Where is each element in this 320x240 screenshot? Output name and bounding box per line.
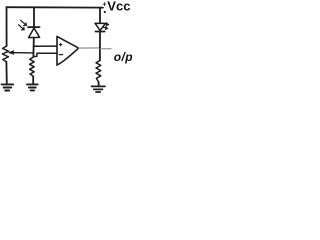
svg-text:o/p: o/p	[114, 50, 133, 64]
photodiode D1 triangle	[29, 28, 40, 38]
wire photodiode anode down to node A and resistor R2	[32, 38, 34, 57]
photodiode D1 cathode bar	[28, 26, 40, 28]
LED emission arrow 2	[103, 27, 108, 30]
wire top supply rail	[7, 6, 104, 8]
wire potentiometer bottom to ground	[5, 62, 7, 85]
svg-text:Vcc: Vcc	[107, 0, 130, 14]
wire output stub to o/p	[101, 48, 112, 50]
junction dot below +Vcc	[104, 11, 106, 13]
wire resistor R3 to ground	[98, 82, 100, 86]
wire wiper jog to op-amp non-inverting input	[33, 53, 57, 56]
LED D2 triangle	[95, 23, 106, 30]
ground symbol (right, under R3)	[92, 86, 106, 92]
op-amp plus input mark	[59, 43, 61, 45]
ground symbol (left, under potentiometer)	[2, 84, 14, 90]
wire photodiode branch from rail down	[33, 7, 35, 27]
photodiode light arrow 2	[19, 25, 25, 30]
wire left branch from rail down to potentiometer	[6, 7, 8, 46]
wire op-amp output	[79, 47, 100, 49]
ground symbol (middle, under R2)	[27, 84, 38, 90]
op-amp minus input mark	[59, 54, 62, 56]
wire resistor R2 to ground	[32, 76, 34, 84]
LED emission arrow 1	[103, 23, 108, 26]
photodiode light arrow 1	[21, 20, 27, 25]
resistor R3 (zigzag under output node)	[96, 61, 101, 83]
op-amp U1 triangle	[57, 36, 79, 65]
potentiometer wiper arrow	[9, 52, 33, 54]
LED D2 cathode bar	[96, 31, 105, 33]
wire LED branch from rail down	[99, 8, 101, 23]
potentiometer R1 body (zigzag)	[2, 46, 8, 62]
wire node A to op-amp inverting input	[34, 45, 57, 47]
wire LED cathode down through output node to resistor R3	[99, 32, 101, 61]
resistor R2 (zigzag under photodiode)	[30, 57, 35, 76]
